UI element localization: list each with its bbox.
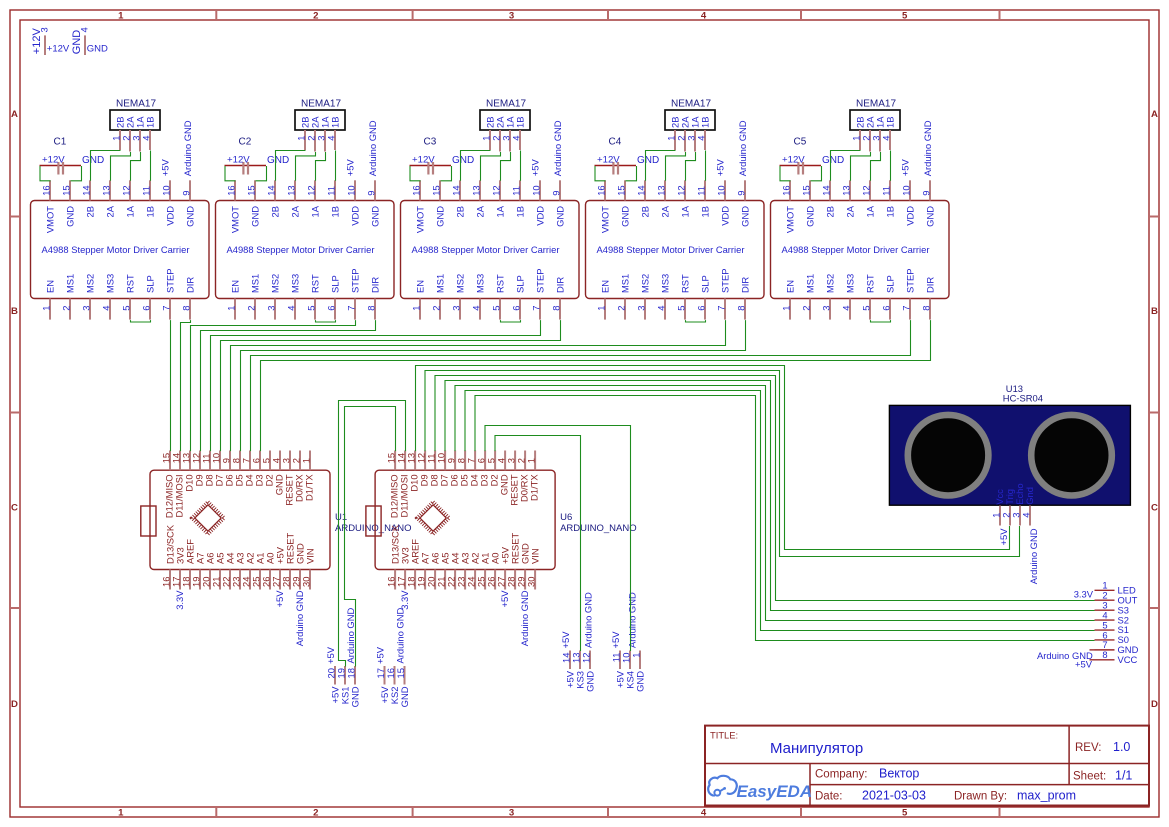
svg-text:VMOT: VMOT <box>45 206 56 233</box>
svg-text:DIR: DIR <box>925 277 936 293</box>
svg-text:1A: 1A <box>310 205 321 217</box>
svg-text:1: 1 <box>781 306 792 311</box>
svg-text:3.3V: 3.3V <box>174 590 185 610</box>
svg-text:GND: GND <box>452 155 474 166</box>
svg-text:12: 12 <box>121 185 132 195</box>
svg-text:VDD: VDD <box>535 206 546 226</box>
svg-text:12: 12 <box>861 185 872 195</box>
svg-text:C3: C3 <box>424 137 437 148</box>
svg-text:EN: EN <box>230 280 241 293</box>
svg-text:+5V: +5V <box>375 646 386 664</box>
svg-text:2: 2 <box>801 306 812 311</box>
svg-text:3: 3 <box>509 10 514 21</box>
svg-text:SLP: SLP <box>885 275 896 293</box>
svg-text:1B: 1B <box>515 117 526 128</box>
svg-text:11: 11 <box>881 186 892 196</box>
svg-text:1B: 1B <box>145 206 156 217</box>
svg-text:RST: RST <box>680 274 691 293</box>
svg-text:1: 1 <box>301 458 312 463</box>
svg-text:4: 4 <box>511 136 522 141</box>
svg-text:3: 3 <box>266 306 277 311</box>
svg-text:A4988 Stepper Motor Driver Car: A4988 Stepper Motor Driver Carrier <box>412 244 560 255</box>
svg-text:A4988 Stepper Motor Driver Car: A4988 Stepper Motor Driver Carrier <box>597 244 745 255</box>
svg-text:7: 7 <box>901 306 912 311</box>
svg-text:16: 16 <box>781 185 792 195</box>
svg-text:2021-03-03: 2021-03-03 <box>862 789 926 803</box>
svg-text:Arduino GND: Arduino GND <box>583 592 594 648</box>
svg-text:2: 2 <box>431 306 442 311</box>
svg-text:2A: 2A <box>290 205 301 217</box>
svg-text:6: 6 <box>696 306 707 311</box>
svg-text:Arduino GND: Arduino GND <box>627 592 638 648</box>
svg-text:Date:: Date: <box>815 791 843 803</box>
svg-text:6: 6 <box>326 306 337 311</box>
svg-text:2B: 2B <box>85 206 96 217</box>
svg-text:+5V: +5V <box>160 159 171 177</box>
svg-text:12: 12 <box>676 185 687 195</box>
svg-text:GND: GND <box>822 155 844 166</box>
svg-text:+12V: +12V <box>597 154 620 165</box>
svg-text:13: 13 <box>656 185 667 195</box>
svg-text:1A: 1A <box>495 205 506 217</box>
svg-text:SLP: SLP <box>515 275 526 293</box>
svg-text:Вектор: Вектор <box>879 767 919 781</box>
svg-text:14: 14 <box>81 185 92 195</box>
svg-text:11: 11 <box>326 186 337 196</box>
svg-text:Arduino GND: Arduino GND <box>345 608 356 664</box>
svg-text:RST: RST <box>125 274 136 293</box>
svg-text:2A: 2A <box>845 205 856 217</box>
svg-text:15: 15 <box>616 185 627 195</box>
svg-text:D: D <box>1151 699 1158 710</box>
svg-text:B: B <box>11 306 18 317</box>
svg-text:16: 16 <box>226 185 237 195</box>
svg-text:MS3: MS3 <box>105 274 116 293</box>
svg-text:+5V: +5V <box>610 631 621 649</box>
svg-text:+5V: +5V <box>325 646 336 664</box>
svg-text:1A: 1A <box>125 205 136 217</box>
svg-text:5: 5 <box>902 807 908 818</box>
svg-text:4: 4 <box>841 306 852 311</box>
svg-text:GND: GND <box>435 206 446 227</box>
svg-text:MS2: MS2 <box>640 274 651 293</box>
svg-text:9: 9 <box>181 191 192 196</box>
svg-text:STEP: STEP <box>350 269 361 294</box>
svg-text:MS2: MS2 <box>455 274 466 293</box>
svg-text:NEMA17: NEMA17 <box>671 99 711 110</box>
svg-text:2B: 2B <box>825 206 836 217</box>
svg-text:7: 7 <box>161 306 172 311</box>
svg-text:1B: 1B <box>330 206 341 217</box>
svg-text:MS3: MS3 <box>475 274 486 293</box>
svg-text:1: 1 <box>226 306 237 311</box>
svg-text:4: 4 <box>701 807 707 818</box>
svg-text:Arduino GND: Arduino GND <box>737 120 748 176</box>
svg-text:15: 15 <box>801 185 812 195</box>
svg-text:SLP: SLP <box>330 275 341 293</box>
svg-text:VDD: VDD <box>905 206 916 226</box>
svg-text:1A: 1A <box>865 205 876 217</box>
svg-text:4: 4 <box>79 27 90 32</box>
svg-text:Arduino GND: Arduino GND <box>552 120 563 176</box>
svg-text:MS1: MS1 <box>620 274 631 293</box>
svg-text:Arduino GND: Arduino GND <box>294 590 305 646</box>
svg-text:Arduino GND: Arduino GND <box>395 608 406 664</box>
svg-text:14: 14 <box>266 185 277 195</box>
svg-text:11: 11 <box>141 186 152 196</box>
svg-text:A4988 Stepper Motor Driver Car: A4988 Stepper Motor Driver Carrier <box>782 244 930 255</box>
svg-text:GND: GND <box>637 155 659 166</box>
svg-text:+5V: +5V <box>900 159 911 177</box>
svg-text:30: 30 <box>526 577 537 587</box>
svg-text:1.0: 1.0 <box>1113 740 1130 754</box>
svg-text:15: 15 <box>246 185 257 195</box>
svg-text:+5V: +5V <box>530 159 541 177</box>
svg-text:STEP: STEP <box>905 269 916 294</box>
svg-text:5: 5 <box>121 306 132 311</box>
svg-text:1: 1 <box>118 807 124 818</box>
svg-text:Arduino GND: Arduino GND <box>1028 528 1039 584</box>
svg-text:DIR: DIR <box>185 277 196 293</box>
svg-text:3: 3 <box>821 306 832 311</box>
svg-text:1: 1 <box>526 458 537 463</box>
svg-text:RST: RST <box>865 274 876 293</box>
svg-text:SLP: SLP <box>700 275 711 293</box>
svg-text:U1: U1 <box>335 512 347 523</box>
svg-text:GND: GND <box>585 671 596 692</box>
svg-text:VMOT: VMOT <box>600 206 611 233</box>
svg-text:TITLE:: TITLE: <box>710 730 738 741</box>
svg-text:NEMA17: NEMA17 <box>301 99 341 110</box>
svg-text:1: 1 <box>411 306 422 311</box>
svg-text:MS3: MS3 <box>290 274 301 293</box>
svg-text:+5V: +5V <box>560 631 571 649</box>
svg-text:GND: GND <box>250 206 261 227</box>
svg-text:9: 9 <box>921 191 932 196</box>
svg-text:1: 1 <box>41 306 52 311</box>
svg-text:2: 2 <box>313 10 318 21</box>
svg-text:1B: 1B <box>885 206 896 217</box>
svg-text:EN: EN <box>45 280 56 293</box>
svg-text:12: 12 <box>581 653 592 663</box>
svg-text:EasyEDA: EasyEDA <box>737 782 813 801</box>
svg-text:2B: 2B <box>640 206 651 217</box>
svg-text:D1/TX: D1/TX <box>529 474 540 501</box>
svg-text:VCC: VCC <box>1118 654 1138 665</box>
svg-text:11: 11 <box>511 186 522 196</box>
svg-text:STEP: STEP <box>165 269 176 294</box>
svg-text:9: 9 <box>551 191 562 196</box>
svg-text:5: 5 <box>861 306 872 311</box>
svg-text:6: 6 <box>881 306 892 311</box>
svg-text:3: 3 <box>81 306 92 311</box>
svg-text:1: 1 <box>596 306 607 311</box>
svg-text:10: 10 <box>901 185 912 195</box>
svg-text:1: 1 <box>631 653 642 658</box>
svg-text:VDD: VDD <box>165 206 176 226</box>
svg-text:5: 5 <box>491 306 502 311</box>
svg-text:Arduino GND: Arduino GND <box>519 590 530 646</box>
svg-text:3.3V: 3.3V <box>399 590 410 610</box>
svg-text:16: 16 <box>596 185 607 195</box>
svg-text:EN: EN <box>415 280 426 293</box>
svg-text:Arduino GND: Arduino GND <box>182 120 193 176</box>
svg-text:STEP: STEP <box>720 269 731 294</box>
svg-text:2: 2 <box>313 807 318 818</box>
svg-text:18: 18 <box>346 668 357 678</box>
svg-text:EN: EN <box>785 280 796 293</box>
svg-text:14: 14 <box>821 185 832 195</box>
svg-text:ARDUINO_NANO: ARDUINO_NANO <box>560 523 637 534</box>
svg-text:GND: GND <box>635 671 646 692</box>
svg-text:GND: GND <box>82 155 104 166</box>
svg-text:1B: 1B <box>515 206 526 217</box>
svg-text:+5V: +5V <box>345 159 356 177</box>
svg-text:2: 2 <box>616 306 627 311</box>
svg-text:13: 13 <box>471 185 482 195</box>
svg-text:5: 5 <box>306 306 317 311</box>
svg-text:B: B <box>1151 306 1158 317</box>
svg-text:MS1: MS1 <box>435 274 446 293</box>
svg-text:DIR: DIR <box>740 277 751 293</box>
svg-text:4: 4 <box>696 136 707 141</box>
svg-text:A: A <box>1151 109 1158 120</box>
svg-text:10: 10 <box>161 185 172 195</box>
svg-text:GND: GND <box>87 44 108 55</box>
svg-text:Манипулятор: Манипулятор <box>770 740 863 757</box>
svg-text:DIR: DIR <box>370 277 381 293</box>
svg-text:VIN: VIN <box>305 548 316 564</box>
svg-text:3: 3 <box>509 807 514 818</box>
svg-text:+5V: +5V <box>1075 659 1093 670</box>
svg-text:MS1: MS1 <box>250 274 261 293</box>
svg-text:+12V: +12V <box>227 154 250 165</box>
svg-text:+12V: +12V <box>782 154 805 165</box>
svg-text:2: 2 <box>246 306 257 311</box>
svg-text:4: 4 <box>701 10 707 21</box>
svg-text:13: 13 <box>841 185 852 195</box>
svg-text:GND: GND <box>399 686 410 707</box>
svg-text:1/1: 1/1 <box>1115 769 1132 783</box>
svg-text:4: 4 <box>101 306 112 311</box>
svg-text:GND: GND <box>185 206 196 227</box>
svg-text:1B: 1B <box>885 117 896 128</box>
svg-text:MS2: MS2 <box>825 274 836 293</box>
svg-text:A4988 Stepper Motor Driver Car: A4988 Stepper Motor Driver Carrier <box>42 244 190 255</box>
svg-text:2A: 2A <box>475 205 486 217</box>
svg-text:1B: 1B <box>330 117 341 128</box>
svg-text:GND: GND <box>65 206 76 227</box>
svg-text:C2: C2 <box>239 137 252 148</box>
svg-text:2: 2 <box>61 306 72 311</box>
svg-text:SLP: SLP <box>145 275 156 293</box>
svg-text:12: 12 <box>306 185 317 195</box>
svg-text:RST: RST <box>310 274 321 293</box>
svg-text:4: 4 <box>1021 513 1032 518</box>
svg-text:GND: GND <box>620 206 631 227</box>
svg-text:Sheet:: Sheet: <box>1073 771 1106 783</box>
svg-text:EN: EN <box>600 280 611 293</box>
svg-text:+5V: +5V <box>715 159 726 177</box>
svg-text:C: C <box>11 503 18 514</box>
svg-text:12: 12 <box>491 185 502 195</box>
svg-text:16: 16 <box>41 185 52 195</box>
svg-text:Gnd: Gnd <box>1024 487 1035 505</box>
svg-text:+5V: +5V <box>998 528 1009 546</box>
svg-text:7: 7 <box>346 306 357 311</box>
svg-text:MS1: MS1 <box>65 274 76 293</box>
svg-text:9: 9 <box>736 191 747 196</box>
svg-text:+12V: +12V <box>412 154 435 165</box>
svg-text:2A: 2A <box>660 205 671 217</box>
svg-text:D: D <box>11 699 18 710</box>
svg-text:4: 4 <box>656 306 667 311</box>
svg-text:15: 15 <box>431 185 442 195</box>
svg-text:GND: GND <box>805 206 816 227</box>
svg-text:MS3: MS3 <box>845 274 856 293</box>
svg-text:+12V: +12V <box>42 154 65 165</box>
svg-text:HC-SR04: HC-SR04 <box>1003 392 1043 403</box>
svg-text:10: 10 <box>346 185 357 195</box>
svg-text:max_prom: max_prom <box>1017 789 1076 803</box>
svg-text:VIN: VIN <box>530 548 541 564</box>
svg-text:10: 10 <box>716 185 727 195</box>
svg-text:Drawn By:: Drawn By: <box>954 791 1007 803</box>
svg-text:MS3: MS3 <box>660 274 671 293</box>
svg-text:MS1: MS1 <box>805 274 816 293</box>
svg-text:Company:: Company: <box>815 769 867 781</box>
svg-text:VMOT: VMOT <box>785 206 796 233</box>
svg-text:8: 8 <box>366 306 377 311</box>
svg-text:RST: RST <box>495 274 506 293</box>
svg-text:13: 13 <box>286 185 297 195</box>
svg-text:10: 10 <box>531 185 542 195</box>
svg-text:DIR: DIR <box>555 277 566 293</box>
svg-text:A4988 Stepper Motor Driver Car: A4988 Stepper Motor Driver Carrier <box>227 244 375 255</box>
svg-text:15: 15 <box>61 185 72 195</box>
svg-text:VDD: VDD <box>720 206 731 226</box>
svg-text:8: 8 <box>181 306 192 311</box>
svg-text:6: 6 <box>511 306 522 311</box>
svg-text:1B: 1B <box>145 117 156 128</box>
svg-text:GND: GND <box>740 206 751 227</box>
svg-text:8: 8 <box>736 306 747 311</box>
svg-text:8: 8 <box>1102 649 1107 660</box>
svg-text:NEMA17: NEMA17 <box>116 99 156 110</box>
svg-text:13: 13 <box>101 185 112 195</box>
svg-text:REV:: REV: <box>1075 742 1101 754</box>
svg-text:+5V: +5V <box>274 590 285 608</box>
svg-text:D1/TX: D1/TX <box>304 474 315 501</box>
svg-text:GND: GND <box>350 686 361 707</box>
svg-text:4: 4 <box>326 136 337 141</box>
svg-text:1A: 1A <box>680 205 691 217</box>
svg-text:11: 11 <box>696 186 707 196</box>
svg-text:Arduino GND: Arduino GND <box>367 120 378 176</box>
svg-text:8: 8 <box>921 306 932 311</box>
svg-text:+5V: +5V <box>499 590 510 608</box>
svg-text:GND: GND <box>925 206 936 227</box>
svg-text:30: 30 <box>301 577 312 587</box>
svg-text:15: 15 <box>395 668 406 678</box>
svg-text:GND: GND <box>267 155 289 166</box>
svg-text:4: 4 <box>471 306 482 311</box>
svg-text:3: 3 <box>451 306 462 311</box>
svg-text:3.3V: 3.3V <box>1074 588 1094 599</box>
svg-text:5: 5 <box>676 306 687 311</box>
svg-text:3: 3 <box>636 306 647 311</box>
svg-text:C4: C4 <box>609 137 622 148</box>
svg-text:GND: GND <box>370 206 381 227</box>
svg-text:16: 16 <box>411 185 422 195</box>
svg-text:NEMA17: NEMA17 <box>856 99 896 110</box>
svg-text:VDD: VDD <box>350 206 361 226</box>
svg-text:GND: GND <box>555 206 566 227</box>
svg-text:+12V: +12V <box>47 44 70 55</box>
svg-text:STEP: STEP <box>535 269 546 294</box>
svg-text:8: 8 <box>551 306 562 311</box>
svg-text:14: 14 <box>636 185 647 195</box>
svg-text:3: 3 <box>39 27 50 32</box>
svg-text:C1: C1 <box>54 137 67 148</box>
svg-text:VMOT: VMOT <box>415 206 426 233</box>
svg-text:2A: 2A <box>105 205 116 217</box>
svg-text:4: 4 <box>881 136 892 141</box>
svg-text:1: 1 <box>118 10 124 21</box>
svg-text:Arduino GND: Arduino GND <box>922 120 933 176</box>
svg-text:9: 9 <box>366 191 377 196</box>
svg-text:1B: 1B <box>700 117 711 128</box>
svg-text:C: C <box>1151 503 1158 514</box>
svg-text:7: 7 <box>531 306 542 311</box>
svg-text:VMOT: VMOT <box>230 206 241 233</box>
svg-text:5: 5 <box>902 10 908 21</box>
svg-text:NEMA17: NEMA17 <box>486 99 526 110</box>
svg-text:C5: C5 <box>794 137 807 148</box>
svg-text:A: A <box>11 109 18 120</box>
svg-text:MS2: MS2 <box>270 274 281 293</box>
svg-text:U6: U6 <box>560 512 572 523</box>
svg-text:7: 7 <box>716 306 727 311</box>
svg-text:4: 4 <box>286 306 297 311</box>
svg-text:4: 4 <box>141 136 152 141</box>
svg-text:MS2: MS2 <box>85 274 96 293</box>
svg-text:14: 14 <box>451 185 462 195</box>
svg-text:1B: 1B <box>700 206 711 217</box>
svg-text:2B: 2B <box>455 206 466 217</box>
svg-text:2B: 2B <box>270 206 281 217</box>
svg-text:6: 6 <box>141 306 152 311</box>
